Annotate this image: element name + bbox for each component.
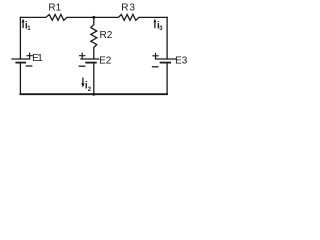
svg-text:R3: R3 [121, 3, 135, 14]
svg-text:R2: R2 [100, 30, 113, 41]
svg-text:R1: R1 [48, 3, 61, 14]
svg-text:E3: E3 [175, 55, 188, 66]
svg-text:E2: E2 [99, 55, 112, 66]
